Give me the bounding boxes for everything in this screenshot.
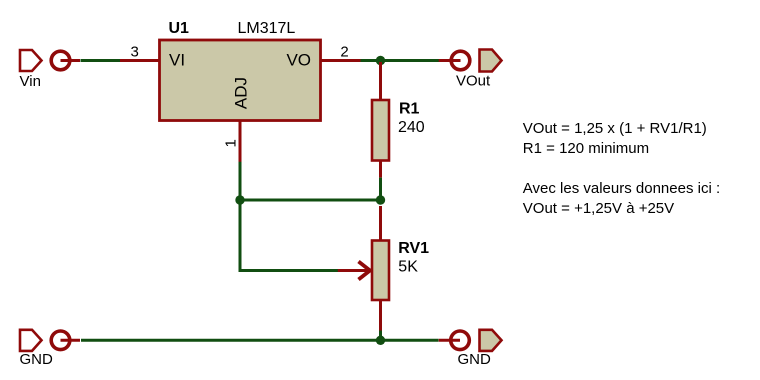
pin wire junction to R1 bbox=[379, 62, 382, 100]
svg-text:LM317L: LM317L bbox=[238, 20, 296, 37]
wire R1 to junction bbox=[379, 178, 382, 196]
svg-text:240: 240 bbox=[398, 119, 425, 136]
junction ADJ net bbox=[235, 195, 244, 204]
svg-text:VOut = +1,25V à +25V: VOut = +1,25V à +25V bbox=[523, 200, 674, 217]
terminal GND right bbox=[439, 330, 502, 351]
wire ADJ down and to wiper bbox=[240, 162, 338, 271]
wiper arrow of RV1 bbox=[338, 262, 370, 280]
svg-text:GND: GND bbox=[458, 351, 492, 368]
svg-text:VOut: VOut bbox=[456, 73, 491, 90]
svg-text:GND: GND bbox=[20, 351, 54, 368]
svg-text:VO: VO bbox=[286, 51, 311, 70]
svg-text:R1 = 120 minimum: R1 = 120 minimum bbox=[523, 140, 649, 157]
pin 1 (ADJ) bbox=[239, 121, 242, 163]
potentiometer RV1 bbox=[372, 241, 389, 301]
junction node VO/R1 bbox=[376, 56, 385, 65]
junction node R1/RV1/ADJ bbox=[376, 195, 385, 204]
pin RV1 top bbox=[379, 206, 382, 241]
svg-text:R1: R1 bbox=[399, 101, 420, 118]
svg-text:VI: VI bbox=[169, 51, 185, 70]
svg-text:U1: U1 bbox=[169, 20, 190, 37]
svg-text:ADJ: ADJ bbox=[231, 77, 250, 109]
terminal VOut bbox=[439, 50, 502, 72]
pin R1 bottom bbox=[379, 160, 382, 178]
terminal GND left bbox=[20, 330, 80, 351]
ground rail wire bbox=[81, 339, 439, 342]
svg-text:Avec les valeurs donnees ici :: Avec les valeurs donnees ici : bbox=[523, 180, 720, 197]
svg-text:2: 2 bbox=[340, 44, 348, 61]
junction ground rail bbox=[376, 336, 385, 345]
pin RV1 bottom bbox=[379, 300, 382, 332]
wire RV1 to ground rail bbox=[379, 331, 382, 341]
resistor R1 bbox=[372, 100, 389, 161]
svg-text:1: 1 bbox=[223, 139, 240, 147]
wire ADJ junction to R1/RV1 junction bbox=[240, 199, 381, 202]
pin 3 (VI) bbox=[120, 59, 160, 62]
wire VO to VOut bbox=[361, 59, 441, 62]
svg-text:RV1: RV1 bbox=[398, 240, 429, 257]
svg-text:3: 3 bbox=[131, 43, 139, 60]
svg-text:Vin: Vin bbox=[20, 73, 41, 90]
svg-text:VOut = 1,25 x (1 + RV1/R1): VOut = 1,25 x (1 + RV1/R1) bbox=[523, 120, 707, 137]
wire Vin to U1 bbox=[81, 59, 121, 62]
terminal Vin bbox=[20, 50, 80, 71]
regulator U1 body (LM317L) bbox=[160, 40, 321, 121]
svg-text:5K: 5K bbox=[398, 259, 418, 276]
pin 2 (VO) bbox=[321, 59, 362, 62]
